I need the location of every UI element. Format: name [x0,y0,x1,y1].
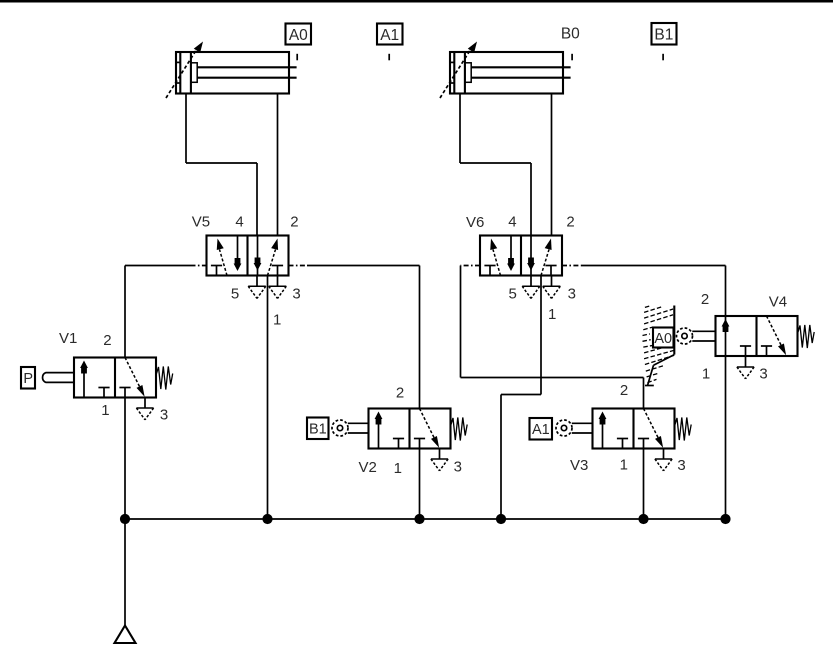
V3 port 2 label [620,382,628,399]
V2 label [359,459,377,476]
svg-text:A0: A0 [289,27,308,44]
V4 port 2 label [701,291,709,308]
svg-text:V4: V4 [769,294,787,311]
svg-text:V2: V2 [359,459,377,476]
V6 label [466,214,484,231]
compressed air supply [115,626,136,644]
wire V5 pilot corner to V1 port 2 [124,266,126,358]
V2 port 3 exhaust [431,449,448,471]
wire bus to air supply [124,519,126,625]
cylinder B (double-acting, adjustable cushioning) [440,42,571,99]
svg-text:3: 3 [568,286,576,303]
junction node at V4 drop [720,514,730,524]
V2 port 3 label [454,459,462,476]
V1 port 2 label [103,332,111,349]
svg-text:3: 3 [454,459,462,476]
junction node at V1 drop [120,514,130,524]
V4 roller actuator [677,328,716,344]
svg-text:B0: B0 [561,26,580,43]
svg-text:3: 3 [677,457,685,474]
svg-text:2: 2 [396,385,404,402]
svg-text:1: 1 [702,366,710,383]
valve V3 (3/2-way roller lever valve) [593,409,675,449]
svg-text:B1: B1 [309,421,327,437]
svg-text:1: 1 [101,402,109,419]
V5 port 3 exhaust [269,276,287,299]
svg-text:2: 2 [701,291,709,308]
position tick B1 [662,54,664,61]
svg-text:3: 3 [160,407,168,424]
V5 port 2 label [290,214,298,231]
valve V4 (3/2-way roller lever valve, actuated) [716,316,798,356]
V4 port 3 label [759,366,767,383]
V5 port 4 label [235,214,243,231]
V4 label box A0 [653,328,674,348]
V6 left pilot line [461,265,481,267]
V2 roller actuator [332,420,369,436]
valve V2 (3/2-way roller lever valve) [369,409,451,449]
svg-text:2: 2 [103,332,111,349]
V3 roller actuator [556,420,593,436]
V1 label [59,330,77,347]
V6 port 3 label [568,286,576,303]
V5 left pilot line [125,265,207,267]
wire V5 port 1 to bus [267,276,269,520]
V3 label box A1 [530,418,553,440]
top border bar [0,0,833,3]
svg-text:1: 1 [394,460,402,477]
svg-text:V6: V6 [466,214,484,231]
V5 port 5 label [231,286,239,303]
label box B1 [652,23,677,45]
V4 spring [798,325,814,348]
V3 spring [675,418,691,441]
valve V1 (3/2-way pushbutton valve) [74,358,156,398]
V5 port 3 label [292,286,300,303]
position tick A1 [388,54,390,61]
junction node at V5 drop [262,514,272,524]
svg-text:2: 2 [566,214,574,231]
V1 label box P [21,367,35,389]
V3 port 3 exhaust [655,449,672,471]
svg-text:3: 3 [759,366,767,383]
V6 port 4 label [508,214,516,231]
V4 port 3 exhaust [737,356,754,379]
trip cam wall hatching [643,306,674,383]
valve V5 (5/2-way pneumatic impulse valve) [207,236,289,276]
V1 port 3 exhaust [136,398,153,420]
pressure bus line [125,518,726,520]
V2 port 1 label [394,460,402,477]
wire V3 port 1 to bus [643,449,645,520]
wire cylinder A right port to V5 port 2 [277,94,279,236]
svg-text:5: 5 [231,286,239,303]
V5 port 5 exhaust [248,276,266,299]
V1 port 1 label [101,402,109,419]
junction node at V6 drop [496,514,506,524]
V3 port 1 label [620,457,628,474]
svg-text:5: 5 [509,286,517,303]
V6 port 5 exhaust [522,276,540,299]
svg-text:P: P [23,371,33,387]
junction node at V3 drop [638,514,648,524]
svg-text:B1: B1 [654,27,673,44]
svg-text:V1: V1 [59,330,77,347]
V5 port 1 label [273,312,281,329]
V1 spring [157,367,173,390]
label B0 [561,26,580,43]
V3 port 3 label [677,457,685,474]
svg-text:1: 1 [273,312,281,329]
V2 label box B1 [307,418,329,440]
svg-text:4: 4 [508,214,516,231]
wire cylinder B right port to V6 port 2 [551,94,553,236]
svg-text:3: 3 [292,286,300,303]
svg-text:A1: A1 [380,27,399,44]
V5 right pilot line [289,265,420,267]
wire V2 port 1 to bus [419,449,421,520]
V5 label [192,214,210,231]
wire V1 port 1 to bus [124,398,126,520]
label box A1 [377,24,403,45]
wire cylinder B left port to V6 port 4 [460,94,531,236]
V4 label [769,294,787,311]
position tick B0 [571,54,573,61]
V4 port 1 label [702,366,710,383]
svg-text:A0: A0 [654,331,672,347]
V6 port 1 label [548,306,556,323]
svg-text:A1: A1 [532,422,550,438]
svg-text:4: 4 [235,214,243,231]
V2 spring [451,418,467,441]
trip cam wall edges [645,306,674,386]
wire V4 port 1 to bus [725,356,727,519]
wire V5 right pilot to V2 port 2 [419,266,421,409]
wire V6 port 1 to bus [501,276,541,520]
V6 port 3 exhaust [543,276,561,299]
position tick A0 [296,54,298,61]
label box A0 [286,24,312,45]
svg-text:1: 1 [548,306,556,323]
V1 pushbutton actuator [43,373,74,383]
wire V6 right pilot to V4 port 2 [725,266,727,317]
cylinder A (double-acting, adjustable cushioning) [166,42,297,99]
V1 port 3 label [160,407,168,424]
V2 port 2 label [396,385,404,402]
V6 right pilot line [562,265,726,267]
svg-text:V3: V3 [570,457,588,474]
V3 label [570,457,588,474]
wire V6 left pilot to V3 port 2 [461,266,644,409]
svg-text:2: 2 [620,382,628,399]
svg-text:V5: V5 [192,214,210,231]
wire cylinder A left port to V5 port 4 [186,94,257,236]
svg-text:1: 1 [620,457,628,474]
valve V6 (5/2-way pneumatic impulse valve) [480,236,562,276]
V6 port 2 label [566,214,574,231]
V6 port 5 label [509,286,517,303]
svg-text:2: 2 [290,214,298,231]
junction node at V2 drop [414,514,424,524]
